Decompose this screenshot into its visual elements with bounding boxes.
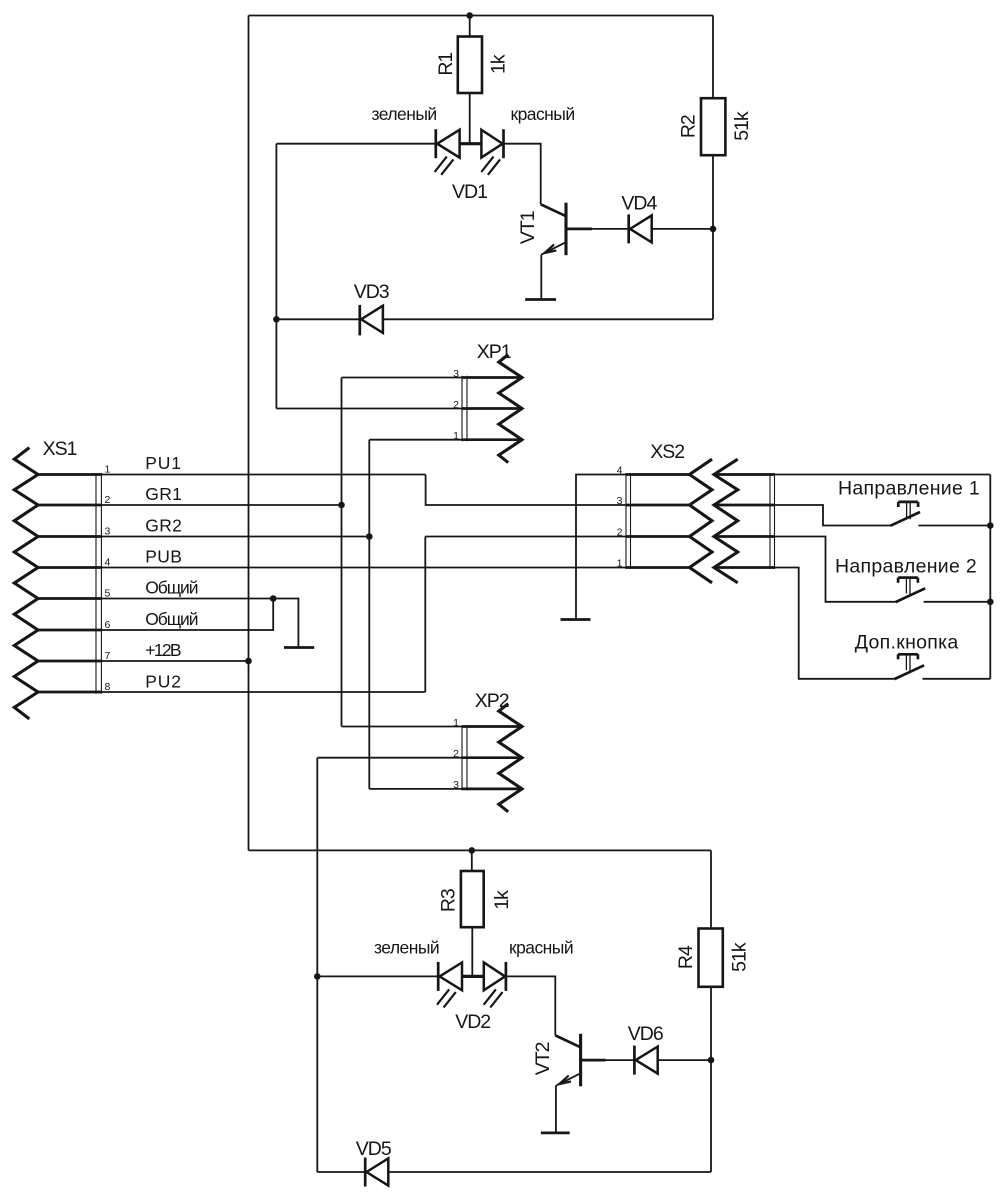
wire XS2.1 to button 3 <box>775 568 895 679</box>
wire XS2.3 to button 1 <box>775 505 891 526</box>
svg-text:Общий: Общий <box>145 609 197 629</box>
wire right branch R4 vertical <box>710 850 712 1172</box>
svg-text:+12В: +12В <box>145 640 181 660</box>
svg-text:51k: 51k <box>731 111 753 141</box>
wire VD1 left branch vertical <box>275 144 277 409</box>
svg-text:зеленый: зеленый <box>372 104 437 124</box>
wire XS2.4 common to buttons <box>775 474 991 476</box>
connector XP2 <box>462 704 522 812</box>
wire VD4 anode to node <box>652 228 713 230</box>
wire GR1 row <box>101 504 341 506</box>
node Obshchiy junction <box>270 595 277 602</box>
wire PU1 jog to XS2.3 <box>426 475 626 506</box>
svg-text:VD6: VD6 <box>628 1023 663 1045</box>
svg-text:XS1: XS1 <box>43 438 77 460</box>
wire VT2 emitter lead <box>555 1086 557 1133</box>
svg-text:8: 8 <box>105 681 111 693</box>
svg-text:Общий: Общий <box>145 577 197 597</box>
svg-text:3: 3 <box>105 525 111 537</box>
svg-text:5: 5 <box>105 587 111 599</box>
wire VD6 anode to node <box>658 1059 711 1061</box>
diode VD4 <box>629 214 652 243</box>
svg-text:1k: 1k <box>488 54 510 74</box>
svg-text:VD4: VD4 <box>621 193 657 215</box>
node +12V junction <box>245 658 252 665</box>
resistor R2 <box>701 98 725 155</box>
svg-text:PUB: PUB <box>145 546 182 566</box>
switch button 2 <box>896 578 926 603</box>
diode VD3 <box>360 305 383 336</box>
wire +12V row <box>101 660 248 662</box>
svg-text:GR2: GR2 <box>145 515 182 535</box>
wire button 3 right contact <box>923 678 991 680</box>
wire VD5 cathode lead <box>317 1171 365 1173</box>
wire XS2.2 to button 2 <box>775 537 896 602</box>
wire PUB row to XS2.1 <box>101 567 626 569</box>
wire GR2 riser XP1.1 to XP2.3 <box>368 440 370 789</box>
diode VD6 <box>634 1046 657 1075</box>
wire Obshchiy to ground <box>273 599 298 647</box>
wire top supply rail <box>249 15 714 17</box>
svg-text:3: 3 <box>617 495 623 507</box>
svg-text:1: 1 <box>617 558 623 570</box>
wire XP2.2 branch riser <box>316 758 318 1172</box>
connector XP1 <box>462 355 522 463</box>
svg-text:51k: 51k <box>728 942 750 972</box>
svg-text:VD5: VD5 <box>356 1138 392 1160</box>
wire VT1 emitter lead <box>540 255 542 299</box>
wire XP2.3 lead <box>369 788 462 790</box>
svg-text:6: 6 <box>105 619 111 631</box>
wire VT1 base to VD4 <box>592 228 629 230</box>
svg-text:XP1: XP1 <box>477 341 511 363</box>
svg-text:Доп.кнопка: Доп.кнопка <box>855 631 959 653</box>
svg-text:R1: R1 <box>435 53 457 76</box>
node bottom rail R3 junction <box>469 847 476 854</box>
transistor VT1 <box>541 203 593 256</box>
node button 1 common <box>987 522 994 529</box>
diode VD5 <box>365 1158 388 1187</box>
LED VD1 bicolor <box>435 129 504 175</box>
svg-text:2: 2 <box>105 494 111 506</box>
wire XP1.3 lead <box>342 377 463 379</box>
svg-text:VT2: VT2 <box>532 1042 554 1075</box>
node VD6 R4 junction <box>708 1057 715 1064</box>
svg-text:Направление 2: Направление 2 <box>835 556 977 578</box>
wire Obshchiy row 5 <box>101 598 273 600</box>
svg-text:R3: R3 <box>438 889 460 912</box>
transistor VT2 <box>555 1034 606 1087</box>
wire VD5 anode bottom rail <box>388 1171 711 1173</box>
node GR1 junction <box>338 502 345 509</box>
ground VT1 emitter <box>525 298 556 301</box>
connector XS2 socket side <box>626 459 712 583</box>
node VD4 R2 junction <box>710 226 717 233</box>
svg-text:2: 2 <box>617 527 623 539</box>
wire bottom supply rail <box>249 849 712 851</box>
wire PU2 riser to XS2.2 <box>424 537 426 693</box>
wire XS2.2 row <box>425 536 626 538</box>
wire VD2 red cathode to VT2 collector <box>506 976 555 1035</box>
node GR2 junction <box>366 533 373 540</box>
switch button 1 <box>890 502 920 526</box>
svg-text:GR1: GR1 <box>145 484 182 504</box>
wire VD2 left lead <box>317 975 438 977</box>
wire PU2 row <box>101 691 425 693</box>
svg-text:зеленый: зеленый <box>374 938 439 958</box>
wire button 1 right contact <box>918 525 990 527</box>
wire R1 top lead <box>469 16 471 37</box>
svg-text:4: 4 <box>105 556 111 568</box>
svg-text:VT1: VT1 <box>517 211 539 244</box>
wire XP2.1 lead <box>342 726 463 728</box>
wire buttons common rail <box>989 475 991 679</box>
wire VT2 base to VD6 <box>606 1059 635 1061</box>
svg-text:VD3: VD3 <box>354 281 389 303</box>
resistor R1 <box>458 37 482 94</box>
connector XS1 <box>14 448 101 719</box>
wire GR2 row <box>101 536 369 538</box>
svg-text:R2: R2 <box>678 115 700 138</box>
wire right branch R2 vertical <box>712 16 714 320</box>
connector XS2 plug side <box>714 459 775 583</box>
wire button 2 right contact <box>924 601 991 603</box>
wire VD3 anode to right branch <box>383 318 713 320</box>
wire GR1 riser XP1.3 to XP2.1 <box>341 378 343 727</box>
wire VD1 left lead <box>276 143 435 145</box>
wire Obshchiy row 6 <box>101 599 273 631</box>
wire R1 bottom lead <box>469 93 471 144</box>
ground XS2.4 <box>561 618 591 621</box>
svg-text:VD1: VD1 <box>452 181 487 203</box>
node top rail R1 junction <box>466 12 473 19</box>
node VD2 branch junction <box>314 973 321 980</box>
node VD3 branch junction <box>273 316 280 323</box>
svg-text:Направление 1: Направление 1 <box>838 477 980 499</box>
svg-text:R4: R4 <box>675 945 697 969</box>
wire R3 bottom lead <box>471 927 473 976</box>
svg-text:1k: 1k <box>491 890 513 910</box>
svg-text:красный: красный <box>511 104 575 124</box>
svg-text:7: 7 <box>105 650 111 662</box>
wire XS2.4 ground lead <box>576 475 626 619</box>
wire XP1.1 lead <box>369 439 462 441</box>
wire VD3 cathode lead <box>276 318 359 320</box>
wire XP1.2 lead <box>276 408 462 410</box>
ground Obshchiy <box>284 646 314 649</box>
ground VT2 emitter <box>541 1132 570 1135</box>
svg-text:PU1: PU1 <box>145 453 181 473</box>
resistor R3 <box>461 871 484 927</box>
LED VD2 bicolor <box>437 962 506 1008</box>
wire PU1 row <box>101 474 425 476</box>
wire XP2.2 lead <box>317 757 462 759</box>
wire R3 top lead <box>471 850 473 871</box>
svg-text:красный: красный <box>509 938 573 958</box>
switch button 3 <box>894 654 924 679</box>
svg-text:1: 1 <box>105 463 111 475</box>
wire VD1 red cathode to VT1 collector <box>504 144 541 205</box>
wire +12V left riser <box>248 16 250 851</box>
svg-text:XS2: XS2 <box>650 441 684 463</box>
svg-text:VD2: VD2 <box>455 1011 490 1033</box>
svg-text:PU2: PU2 <box>145 671 181 691</box>
resistor R4 <box>699 929 723 987</box>
node button 2 common <box>987 599 994 606</box>
